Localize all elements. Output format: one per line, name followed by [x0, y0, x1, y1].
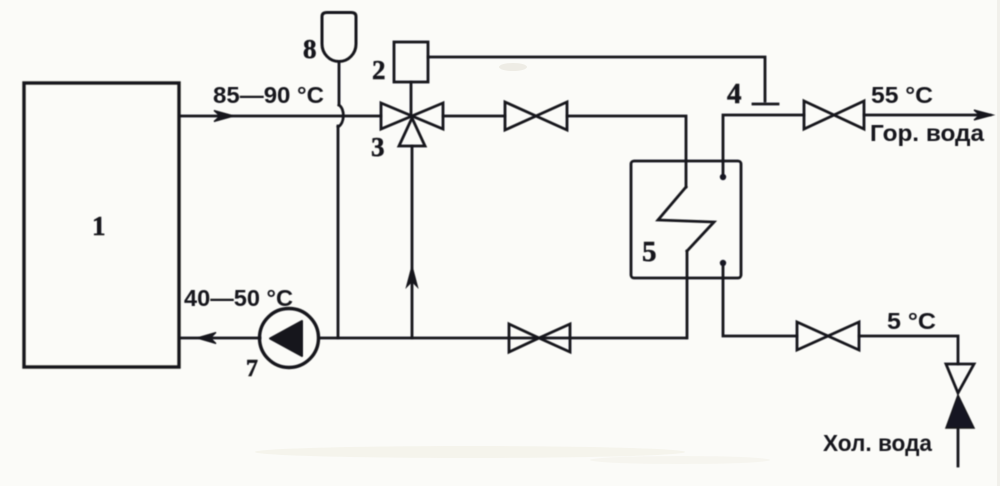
gate valve on cold water inlet: [797, 322, 859, 350]
cold water supply stub: [957, 428, 960, 466]
secondary hot outlet pipe from exchanger: [723, 115, 804, 177]
outlet arrow head: [974, 110, 993, 120]
actuator stem to valve: [410, 82, 413, 114]
three-way valve 3: [381, 103, 412, 129]
riser from return pipe up to valve 3 bottom port: [411, 146, 414, 338]
scan smear bottom band: [255, 446, 685, 458]
flow arrow on supply pipe: [214, 111, 234, 122]
secondary cold inlet pipe to exchanger: [723, 263, 797, 336]
cold water pipe from riser to valve: [859, 336, 958, 364]
svg-text:55 °C: 55 °C: [871, 82, 933, 108]
svg-text:7: 7: [246, 356, 258, 382]
gate valve on hot water outlet: [804, 101, 864, 129]
actuator 2 (box on three-way valve): [394, 42, 428, 82]
primary return drop from coil to return pipe: [686, 251, 689, 338]
flow arrow into boiler: [197, 333, 216, 344]
svg-text:Гор. вода: Гор. вода: [870, 120, 984, 146]
svg-text:4: 4: [727, 78, 742, 110]
check valve open triangle: [946, 364, 974, 393]
svg-text:2: 2: [372, 55, 386, 85]
svg-text:85—90 °C: 85—90 °C: [213, 82, 324, 108]
pipe from supply valve to heat exchanger drop: [567, 116, 686, 187]
svg-text:1: 1: [92, 211, 106, 241]
heat exchanger 5 (shell): [631, 161, 741, 278]
svg-text:5: 5: [642, 236, 657, 268]
pipe end dot bottom: [720, 260, 726, 266]
pipe valve3 to supply gate valve: [443, 115, 505, 118]
svg-text:Хол. вода: Хол. вода: [823, 430, 932, 456]
pump 7: [260, 309, 319, 368]
scanner right edge strip: [997, 0, 1000, 486]
vessel stem lower down to return pipe: [337, 126, 340, 338]
vessel stem upper: [338, 62, 341, 106]
scan smear bottom right: [590, 456, 770, 464]
svg-text:40—50 °C: 40—50 °C: [184, 285, 293, 311]
expansion vessel 8: [322, 13, 356, 62]
return pipe pump to boiler: [179, 337, 260, 340]
pipe end dot top: [720, 174, 726, 180]
hot water outlet pipe with arrow: [864, 114, 990, 117]
up flow arrow on riser: [407, 266, 418, 287]
pump impeller triangle: [270, 321, 302, 356]
check valve filled triangle: [946, 395, 974, 428]
scan smudge above supply line: [499, 63, 527, 71]
stem hop over supply pipe (no connection): [338, 105, 343, 127]
svg-text:3: 3: [371, 132, 385, 162]
return pipe from exchanger to boiler: [319, 337, 686, 340]
gate valve on supply line: [505, 102, 567, 130]
heating coil zigzag inside exchanger: [658, 187, 714, 251]
svg-text:8: 8: [303, 34, 317, 64]
sensor 4 contact bar on pipe: [753, 103, 778, 106]
gate valve on return line: [509, 324, 570, 352]
svg-text:5 °C: 5 °C: [887, 308, 936, 334]
control signal line from actuator 2 to sensor 4: [428, 57, 765, 101]
boiler 1 (box): [24, 83, 179, 367]
supply pipe 85-90 from boiler to valve 3: [179, 115, 381, 118]
